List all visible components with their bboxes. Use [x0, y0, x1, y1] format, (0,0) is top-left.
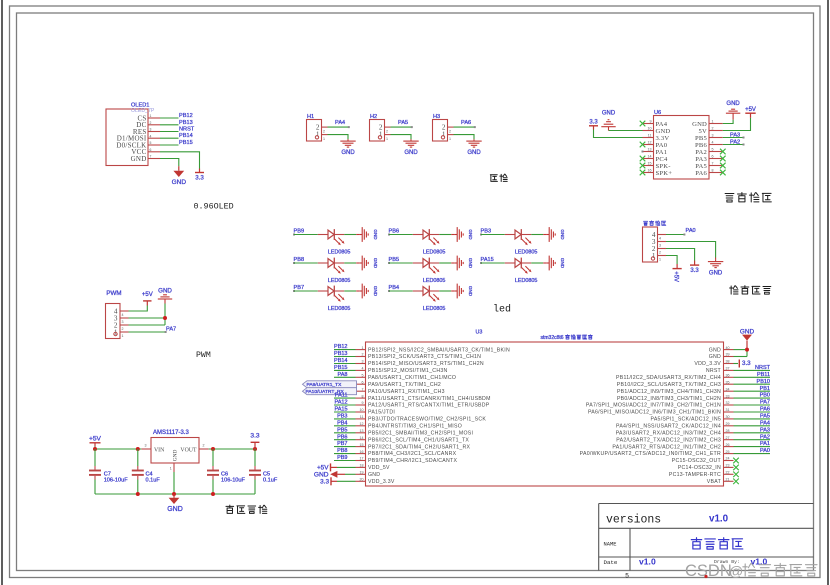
- svg-text:3.3: 3.3: [690, 268, 699, 274]
- svg-text:12: 12: [360, 422, 364, 426]
- svg-text:PA11/USART1_CTS/CANRX/TIM1_CH4: PA11/USART1_CTS/CANRX/TIM1_CH4/USBDM: [368, 396, 491, 402]
- voice module U6: [643, 110, 723, 179]
- wire H1 pin1 to ground: [328, 135, 349, 140]
- svg-text:PA4/SPI1_NSS/USART2_CK/ADC12_I: PA4/SPI1_NSS/USART2_CK/ADC12_IN4: [616, 424, 721, 430]
- wire U3 pin27: [734, 439, 771, 441]
- svg-text:PB6: PB6: [695, 142, 707, 149]
- wire regulator GND pin down: [173, 472, 175, 494]
- svg-text:PA0/WKUP/USART2_CTS/ADC12_IN0/: PA0/WKUP/USART2_CTS/ADC12_IN0/TIM2_CH1_E…: [580, 451, 721, 457]
- svg-text:GND: GND: [656, 128, 671, 135]
- ground GND (PWM): [158, 288, 173, 304]
- svg-text:1: 1: [386, 137, 388, 141]
- svg-text:22: 22: [726, 471, 730, 475]
- wire U3 pin35: [734, 383, 771, 385]
- svg-text:5V: 5V: [699, 128, 707, 135]
- svg-text:PB15: PB15: [334, 365, 347, 371]
- svg-text:PA3: PA3: [695, 156, 707, 163]
- wire PWM pin2: [129, 324, 166, 326]
- connector OLED1: [106, 103, 160, 166]
- watermark red dot: [704, 575, 707, 578]
- svg-text:PA5: PA5: [695, 163, 707, 170]
- junction GND bottom: [172, 492, 176, 496]
- LED PB7 LED0805: [293, 285, 356, 312]
- svg-text:CSDN: CSDN: [685, 562, 732, 580]
- svg-text:PB5: PB5: [337, 427, 347, 433]
- svg-text:15: 15: [648, 161, 652, 165]
- svg-text:PB8: PB8: [294, 257, 305, 263]
- svg-text:v1.0: v1.0: [639, 557, 656, 567]
- svg-text:PB10: PB10: [757, 379, 770, 385]
- ground GND (LED PA15): [543, 256, 565, 271]
- svg-text:VDD_5V: VDD_5V: [368, 465, 390, 471]
- ground GND (mic): [708, 258, 723, 277]
- caption 语音识别: [725, 193, 734, 202]
- svg-text:PA5: PA5: [760, 414, 770, 420]
- svg-text:PB14: PB14: [179, 133, 193, 139]
- wire U3 pin32: [734, 404, 771, 406]
- junction C7 top: [93, 447, 97, 451]
- no-connect X marks U3 pins 24-21: [733, 458, 739, 464]
- svg-text:PC13-TAMPER-RTC: PC13-TAMPER-RTC: [669, 472, 721, 478]
- svg-text:GND: GND: [709, 271, 723, 277]
- wire U3 pin25: [734, 453, 771, 455]
- svg-text:v1.0: v1.0: [709, 514, 729, 525]
- svg-text:PA6: PA6: [760, 407, 770, 413]
- svg-text:3: 3: [712, 133, 714, 137]
- svg-text:1: 1: [122, 334, 124, 338]
- svg-text:19: 19: [360, 471, 364, 475]
- svg-text:NRST: NRST: [179, 127, 195, 133]
- wire U3 pin1: [334, 349, 356, 351]
- svg-text:PA1: PA1: [760, 441, 770, 447]
- wire OLED D1 to PB14: [160, 137, 179, 139]
- capacitor C4 0.1uF: [132, 449, 161, 494]
- svg-text:3: 3: [659, 244, 661, 248]
- svg-text:2: 2: [659, 251, 661, 255]
- svg-text:1: 1: [449, 137, 451, 141]
- svg-text:21: 21: [726, 478, 730, 482]
- svg-text:GND: GND: [726, 101, 740, 107]
- svg-text:GND: GND: [740, 328, 755, 335]
- MCU U3 stm32c8t6: [356, 330, 734, 487]
- svg-text:PB6: PB6: [337, 434, 347, 440]
- svg-text:C4: C4: [146, 471, 153, 477]
- wire PWM pin3: [129, 317, 166, 319]
- svg-text:106-10uF: 106-10uF: [104, 478, 129, 484]
- svg-text:13: 13: [360, 429, 364, 433]
- svg-text:8: 8: [362, 394, 364, 398]
- svg-text:SPK-: SPK-: [656, 163, 671, 170]
- svg-text:GND: GND: [560, 229, 565, 240]
- svg-text:5: 5: [362, 374, 364, 378]
- svg-text:9: 9: [650, 119, 652, 123]
- svg-text:24: 24: [726, 457, 730, 461]
- svg-text:GND: GND: [709, 347, 721, 353]
- power +5V (U6): [745, 107, 756, 118]
- svg-text:PA6: PA6: [695, 170, 707, 177]
- svg-text:LED0805: LED0805: [328, 250, 350, 256]
- svg-text:1: 1: [316, 131, 320, 139]
- capacitor C7 106-10uF: [89, 449, 128, 494]
- svg-text:+5V: +5V: [89, 435, 102, 442]
- svg-text:7: 7: [362, 387, 364, 391]
- wire U3 pin10: [334, 411, 356, 413]
- svg-text:GND: GND: [404, 150, 418, 156]
- svg-text:PB7/I2C1_SDA/TIM4_CH2/USART1_R: PB7/I2C1_SDA/TIM4_CH2/USART1_RX: [368, 444, 471, 450]
- svg-text:4: 4: [122, 313, 124, 317]
- wire OLED GND pin: [160, 159, 179, 167]
- svg-text:PA4: PA4: [760, 420, 770, 426]
- svg-text:1: 1: [150, 114, 152, 118]
- watermark CSDN: [685, 562, 817, 580]
- svg-text:PB6/I2C1_SCL/TIM4_CH1/USART1_T: PB6/I2C1_SCL/TIM4_CH1/USART1_TX: [368, 437, 469, 443]
- svg-text:27: 27: [726, 436, 730, 440]
- junction C4 top: [136, 447, 140, 451]
- power +5V (mic): [673, 264, 682, 282]
- svg-text:PA6: PA6: [461, 120, 471, 126]
- svg-text:35: 35: [726, 380, 730, 384]
- svg-text:40: 40: [726, 346, 730, 350]
- svg-text:106-10uF: 106-10uF: [221, 478, 246, 484]
- svg-text:16: 16: [360, 450, 364, 454]
- svg-text:GND: GND: [373, 229, 378, 240]
- svg-text:GND: GND: [467, 150, 481, 156]
- svg-text:3: 3: [145, 443, 147, 447]
- svg-text:PA15/JTDI: PA15/JTDI: [368, 410, 395, 416]
- caption 声音检测: [730, 286, 738, 294]
- svg-text:PB14: PB14: [334, 358, 347, 364]
- svg-text:PA1/USART2_RTS/ADC12_IN1/TIM2_: PA1/USART2_RTS/ADC12_IN1/TIM2_CH2: [612, 444, 721, 450]
- svg-text:PC4: PC4: [656, 156, 668, 163]
- sheet right edge line: [827, 0, 829, 585]
- wire U3 pin4: [334, 369, 356, 371]
- svg-text:NRST: NRST: [755, 365, 771, 371]
- svg-text:GND: GND: [172, 179, 187, 186]
- svg-text:30: 30: [726, 415, 730, 419]
- svg-text:1: 1: [362, 346, 364, 350]
- svg-text:6: 6: [362, 380, 364, 384]
- svg-text:36: 36: [726, 374, 730, 378]
- svg-text:1: 1: [712, 119, 714, 123]
- svg-text:PB5/I2C1_SMBAI/TIM3_CH2/SPI1_M: PB5/I2C1_SMBAI/TIM3_CH2/SPI1_MOSI: [368, 431, 473, 437]
- svg-text:PA2: PA2: [695, 149, 707, 156]
- svg-text:PB15: PB15: [179, 140, 193, 146]
- svg-text:GND: GND: [341, 150, 355, 156]
- svg-text:PC15-OSC32_OUT: PC15-OSC32_OUT: [672, 458, 722, 464]
- svg-text:GND: GND: [158, 288, 172, 295]
- svg-text:PB3/JTDO/TRACESWO/TIM2_CH2/SPI: PB3/JTDO/TRACESWO/TIM2_CH2/SPI1_SCK: [368, 417, 486, 423]
- svg-text:NRST: NRST: [706, 368, 722, 374]
- svg-text:34: 34: [726, 387, 730, 391]
- svg-text:39: 39: [726, 353, 730, 357]
- svg-text:PB15/SP12_MOSI/TIM1_CH3N: PB15/SP12_MOSI/TIM1_CH3N: [368, 368, 447, 374]
- no-connect X marks U6 left pins 9,12,14,15,16: [640, 121, 646, 127]
- svg-text:1: 1: [379, 131, 383, 139]
- svg-text:PC14-OSC32_IN: PC14-OSC32_IN: [678, 465, 721, 471]
- svg-text:1: 1: [652, 252, 656, 260]
- svg-text:LED0805: LED0805: [515, 278, 537, 284]
- svg-text:GND: GND: [173, 450, 179, 462]
- wire U3 pin29: [734, 425, 771, 427]
- port PA10/UATRT_RX: [303, 388, 357, 395]
- svg-text:PB13: PB13: [334, 351, 347, 357]
- wire +5V down to rail: [94, 447, 96, 450]
- wire U3 pin38: [734, 363, 739, 365]
- ground GND (LED PB3): [543, 227, 565, 242]
- svg-text:26: 26: [726, 443, 730, 447]
- wire U3 pin18: [337, 466, 356, 468]
- wire PWM pin1 to PA7: [129, 331, 166, 333]
- power +5V (PWM): [142, 292, 153, 306]
- svg-text:LED0805: LED0805: [423, 250, 445, 256]
- svg-text:PB13/SPI2_SCK/USART3_CTS/TIM1_: PB13/SPI2_SCK/USART3_CTS/TIM1_CH1N: [368, 354, 481, 360]
- wire right rail: [209, 448, 255, 450]
- svg-text:GND: GND: [373, 286, 378, 297]
- svg-text:5: 5: [150, 141, 152, 145]
- svg-text:20: 20: [360, 478, 364, 482]
- svg-text:PA7: PA7: [166, 326, 176, 332]
- svg-text:PA2: PA2: [730, 139, 740, 145]
- svg-text:PA2/USART2_TX/ADC12_IN2/TIM2_C: PA2/USART2_TX/ADC12_IN2/TIM2_CH3: [616, 437, 721, 443]
- wire U3 pin34: [734, 390, 771, 392]
- svg-text:28: 28: [726, 429, 730, 433]
- svg-text:PB8/TIM4_CH3/I2C1_SCL/CANRX: PB8/TIM4_CH3/I2C1_SCL/CANRX: [368, 451, 457, 457]
- svg-text:PA8: PA8: [338, 372, 348, 378]
- svg-text:PB4: PB4: [337, 420, 347, 426]
- svg-text:3.3: 3.3: [250, 432, 259, 439]
- junction C4 bottom: [136, 492, 140, 496]
- svg-text:0.1uF: 0.1uF: [263, 478, 278, 484]
- wire U3 pin9: [334, 404, 356, 406]
- wire H3 pin2 to PA6: [454, 126, 475, 128]
- ground GND (H2): [403, 139, 418, 156]
- svg-text:PA15: PA15: [334, 407, 347, 413]
- ground GND (H3): [466, 139, 481, 156]
- wire U3 pin40 GND: [734, 349, 748, 351]
- svg-text:PB12: PB12: [334, 344, 347, 350]
- svg-text:+5V: +5V: [317, 465, 329, 472]
- ground GND (OLED): [172, 166, 187, 186]
- title 智能音箱: [691, 538, 701, 549]
- wire H2 pin1 to ground: [391, 135, 412, 140]
- ground GND (LED PB9): [356, 227, 378, 242]
- wire mic pin4 to PA0: [666, 234, 684, 236]
- regulator U AMS1117-3.3: [141, 430, 208, 472]
- caption 稳压电路: [226, 505, 234, 513]
- power +5V (U3): [317, 463, 337, 471]
- svg-text:0.96OLED: 0.96OLED: [194, 202, 234, 212]
- svg-text:13: 13: [648, 147, 652, 151]
- svg-text:PB5: PB5: [695, 135, 707, 142]
- svg-text:2: 2: [203, 443, 205, 447]
- svg-text:18: 18: [360, 464, 364, 468]
- svg-text:32: 32: [726, 401, 730, 405]
- svg-text:LED0805: LED0805: [515, 250, 537, 256]
- svg-text:PA7: PA7: [760, 400, 770, 406]
- power 3.3 (OLED): [195, 169, 204, 182]
- ground GND (U3 top right): [740, 328, 755, 348]
- svg-text:PB6: PB6: [389, 228, 400, 234]
- svg-text:GND: GND: [602, 110, 616, 116]
- ground GND (LED PB7): [356, 284, 378, 299]
- LED PB8 LED0805: [293, 257, 356, 284]
- svg-text:1: 1: [323, 137, 325, 141]
- svg-text:VBAT: VBAT: [707, 479, 722, 485]
- wire U3 pin16: [334, 453, 356, 455]
- svg-text:PB9: PB9: [337, 455, 347, 461]
- wire U3 pin39 GND: [734, 356, 748, 358]
- svg-text:PB12: PB12: [179, 113, 193, 119]
- svg-text:10: 10: [360, 408, 364, 412]
- svg-text:3: 3: [362, 360, 364, 364]
- junction: [163, 316, 167, 320]
- svg-text:2: 2: [362, 353, 364, 357]
- wire U6 GND pin1: [723, 120, 733, 124]
- svg-text:PB1: PB1: [760, 386, 770, 392]
- svg-text:0.1uF: 0.1uF: [146, 478, 161, 484]
- svg-text:PA12/USART1_RTS/CANTX/TIM1_ETR: PA12/USART1_RTS/CANTX/TIM1_ETR/USBDP: [368, 403, 490, 409]
- svg-text:3.3: 3.3: [589, 119, 598, 125]
- svg-text:4: 4: [659, 237, 661, 241]
- wire H3 pin1 to ground: [454, 135, 475, 140]
- wire U3 pin12: [334, 425, 356, 427]
- svg-text:3.3: 3.3: [195, 175, 204, 182]
- wire U3 pin8: [334, 397, 356, 399]
- svg-text:4: 4: [150, 134, 152, 138]
- capacitor C6 106-10uF: [207, 449, 246, 494]
- svg-text:33: 33: [726, 394, 730, 398]
- svg-text:PB0/ADC12_IN8/TIM3_CH3/TIM1_CH: PB0/ADC12_IN8/TIM3_CH3/TIM1_CH2N: [617, 396, 721, 402]
- svg-text:2: 2: [122, 327, 124, 331]
- svg-text:PB8: PB8: [337, 448, 347, 454]
- svg-text:2: 2: [712, 126, 714, 130]
- wire U3 pin36: [734, 376, 771, 378]
- wire U3 pin3: [334, 363, 356, 365]
- no-connect X marks U6 right pins 5-8: [720, 149, 726, 155]
- svg-text:3: 3: [122, 320, 124, 324]
- svg-text:PB11/I2C2_SDA/USART3_RX/TIM2_C: PB11/I2C2_SDA/USART3_RX/TIM2_CH4: [616, 375, 721, 381]
- svg-text:23: 23: [726, 464, 730, 468]
- wire U3 pin28: [734, 432, 771, 434]
- svg-text:GND: GND: [468, 258, 473, 269]
- svg-text:GND: GND: [560, 258, 565, 269]
- junction C6 top: [211, 447, 215, 451]
- LED PA15 LED0805: [480, 257, 543, 284]
- svg-text:C7: C7: [104, 471, 111, 477]
- svg-text:H1: H1: [307, 114, 314, 120]
- svg-text:Date: Date: [604, 559, 618, 566]
- svg-text:6: 6: [712, 154, 714, 158]
- wire U3 pin17: [334, 460, 356, 462]
- ground GND (regulator): [167, 494, 183, 513]
- LED PB4 LED0805: [388, 285, 451, 312]
- svg-text:+5V: +5V: [673, 271, 679, 282]
- svg-text:LED0805: LED0805: [423, 306, 445, 312]
- wire U3 pin19: [345, 473, 356, 475]
- svg-text:1: 1: [659, 258, 661, 262]
- svg-text:VDD_3.3V: VDD_3.3V: [694, 361, 721, 367]
- svg-text:PB1/ADC12_IN9/TIM3_CH4/TIM1_CH: PB1/ADC12_IN9/TIM3_CH4/TIM1_CH3N: [617, 389, 721, 395]
- svg-text:PB5: PB5: [389, 257, 400, 263]
- svg-text:25: 25: [726, 450, 730, 454]
- svg-text:3.3V: 3.3V: [656, 135, 670, 142]
- svg-text:4: 4: [712, 140, 714, 144]
- wire U3 pin13: [334, 432, 356, 434]
- LED PB6 LED0805: [388, 228, 451, 255]
- svg-text:LED0805: LED0805: [423, 278, 445, 284]
- svg-text:GND: GND: [167, 506, 183, 513]
- svg-text:PB4/JNTRST/TIM3_CH1/SPI1_MISO: PB4/JNTRST/TIM3_CH1/SPI1_MISO: [368, 424, 462, 430]
- wire U3 pin26: [734, 446, 771, 448]
- power 3.3 (regulator): [250, 432, 259, 449]
- svg-text:3.3: 3.3: [320, 479, 329, 486]
- LED PB9 LED0805: [293, 228, 356, 255]
- svg-text:PA3/USART2_RX/ADC12_IN3/TIM2_C: PA3/USART2_RX/ADC12_IN3/TIM2_CH4: [616, 431, 721, 437]
- svg-text:2: 2: [150, 121, 152, 125]
- svg-text:GND: GND: [468, 229, 473, 240]
- svg-text:11: 11: [648, 133, 652, 137]
- wire U3 pin15: [334, 446, 356, 448]
- wire PWM pin4 to +5V: [129, 306, 148, 312]
- svg-text:PA2: PA2: [760, 434, 770, 440]
- junction pin40: [745, 348, 749, 352]
- ground GND (U6 left): [601, 110, 616, 130]
- wire U3 pin20: [337, 480, 356, 482]
- LED PB3 LED0805: [480, 228, 543, 255]
- svg-text:PB4: PB4: [389, 285, 400, 291]
- wire U6 5V pin2: [723, 118, 751, 131]
- svg-text:@: @: [729, 563, 743, 579]
- wire U3 pin37: [734, 369, 771, 371]
- power 3.3 (mic): [690, 261, 699, 275]
- svg-text:PB0: PB0: [760, 393, 770, 399]
- svg-text:PB7: PB7: [337, 441, 347, 447]
- wire U6 GND pin10: [609, 130, 643, 132]
- svg-text:C6: C6: [221, 471, 228, 477]
- wire U3 pin33: [734, 397, 771, 399]
- svg-text:SPK+: SPK+: [656, 170, 673, 177]
- wire U3 pin5: [334, 376, 356, 378]
- wire mic pin2 to 3.3: [666, 249, 695, 261]
- svg-text:led: led: [493, 304, 511, 316]
- svg-text:+5V: +5V: [142, 292, 153, 298]
- wire U3 pin2: [334, 356, 356, 358]
- wire H1 pin2 to PA4: [328, 126, 349, 128]
- svg-text:NAME: NAME: [604, 542, 617, 548]
- svg-text:U6: U6: [654, 110, 661, 116]
- capacitor C5 0.1uF: [249, 449, 278, 494]
- wire GND vertical to pins 3,2: [164, 304, 166, 326]
- power +5V (regulator): [89, 435, 102, 446]
- junction C6 bottom: [211, 492, 215, 496]
- pushbutton H2: [370, 114, 391, 141]
- svg-text:PB10/I2C2_SCL/USART3_TX/TIM2_C: PB10/I2C2_SCL/USART3_TX/TIM2_CH3: [617, 382, 721, 388]
- svg-text:GND: GND: [692, 121, 707, 128]
- LED PB5 LED0805: [388, 257, 451, 284]
- ground GND (LED PB6): [451, 227, 473, 242]
- svg-text:PB12/SPI2_NSS/I2C2_SMBAI/USART: PB12/SPI2_NSS/I2C2_SMBAI/USART3_CK/TIM1_…: [368, 347, 510, 353]
- svg-text:PA1: PA1: [656, 149, 668, 156]
- wire U3 pin31: [734, 411, 771, 413]
- wire U3 pin30: [734, 418, 771, 420]
- svg-text:15: 15: [360, 443, 364, 447]
- svg-text:2: 2: [449, 129, 451, 133]
- svg-text:PA0: PA0: [656, 142, 668, 149]
- svg-text:PB9: PB9: [294, 228, 305, 234]
- wire mic pin1 to +5V: [666, 256, 677, 265]
- svg-text:C5: C5: [263, 471, 270, 477]
- svg-text:8: 8: [712, 168, 714, 172]
